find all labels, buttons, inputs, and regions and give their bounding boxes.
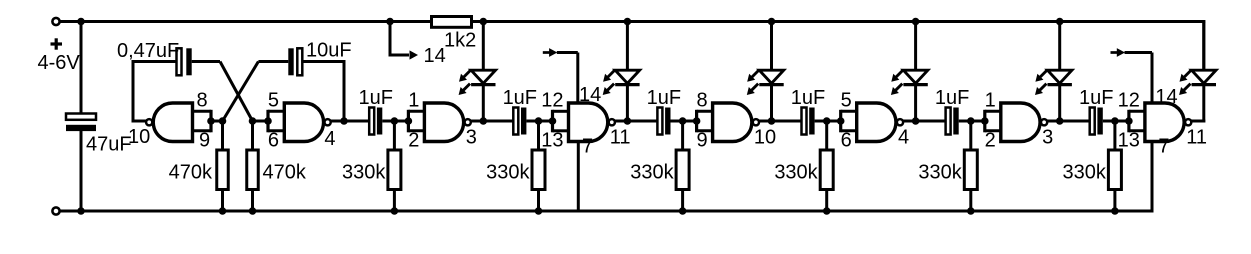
svg-text:14: 14 [424,45,446,67]
node input stage 5 [967,117,975,125]
NAND gate U2C (pins 8,9 in / 10 out) [713,103,752,142]
wire U2D inputs tie bracket [1127,110,1130,133]
capacitor C1 47uF [66,114,96,120]
wire C4 to input node [382,120,394,123]
svg-text:9: 9 [696,130,707,152]
wire LED D6 to output node [1202,85,1205,123]
svg-text:330k: 330k [774,162,818,184]
wire C5 to input node [526,120,538,123]
node A gate1 input / R1 / C3 [219,117,227,125]
svg-text:5: 5 [268,90,279,112]
node rail LED 5 [1056,18,1064,26]
svg-text:13: 13 [541,130,563,152]
svg-text:5: 5 [841,90,852,112]
svg-text:9: 9 [199,130,210,152]
node U2A output / LED [1056,117,1064,125]
resistor R3 1k2 [432,17,472,28]
node U2C input junction [693,117,701,125]
label + polarity [51,42,63,45]
wire U1D pin 14 to supply arrow [576,53,579,104]
svg-text:1uF: 1uF [935,87,969,109]
wire C6 to input node [671,120,683,123]
capacitor C2 0,47uF [177,48,182,75]
node U1B output [340,117,348,125]
node input stage 6 [1111,117,1119,125]
node U2A input junction [981,117,989,125]
node U1D output / LED [624,117,632,125]
node B gate2 input / R2 / C2 [249,117,257,125]
svg-text:4: 4 [898,127,909,149]
capacitor C7 1uF [802,108,807,135]
inverter bubble U1C pin 10 [146,119,152,125]
wire coupling into C8 [916,120,946,123]
wire rail to LED D5 [1058,22,1061,71]
svg-text:1uF: 1uF [503,87,537,109]
inverter bubble U2C pin 10 [753,119,759,125]
svg-text:8: 8 [196,90,207,112]
wire U2A output [1047,120,1060,123]
wire U1D pin 7 to ground [577,142,580,212]
svg-text:330k: 330k [342,162,386,184]
svg-text:2: 2 [408,130,419,152]
svg-text:330k: 330k [630,162,674,184]
node rail LED 2 [624,18,632,26]
node rail LED 3 [768,18,776,26]
svg-text:7: 7 [582,136,593,158]
resistor R2 470k [251,121,254,150]
svg-text:330k: 330k [918,162,962,184]
node U2B input junction [837,117,845,125]
wire input node to U2B bracket [827,120,841,123]
inverter bubble U2A pin 3 [1041,119,1047,125]
inverter bubble U1A pin 3 [465,119,471,125]
svg-text:14: 14 [1155,86,1177,108]
wire top rail right corner down to D6 [1202,20,1205,71]
LED D6 [1192,70,1216,83]
terminal + supply [52,18,59,25]
svg-text:47uF: 47uF [86,134,132,156]
wire LED D6 from rail [1202,22,1205,71]
LED D6 emission arrows [1184,70,1191,77]
wire U2B inputs tie bracket [839,110,842,133]
svg-text:6: 6 [841,130,852,152]
svg-text:13: 13 [1118,130,1140,152]
terminal - supply [52,207,59,214]
wire LED D1 to output node [482,85,485,123]
inverter bubble U1B pin 4 [325,119,331,125]
LED D3 emission arrows [752,70,759,77]
wire C3 to U1B output [303,60,344,63]
svg-text:330k: 330k [486,162,530,184]
node rail after R3 [480,18,488,26]
svg-text:1uF: 1uF [791,87,825,109]
node 330k to ground stage 2 [535,207,543,215]
wire ground rail corner up to gate8 pin 7 [1151,140,1154,213]
wire input node to U1A bracket [394,120,408,123]
inverter bubble U1D pin 11 [609,119,615,125]
node ground rail junction [77,207,85,215]
wire U2D pin 14 to supply arrow [1151,53,1154,104]
wire U2B output [903,120,916,123]
resistor 330k stage 2 [537,121,540,150]
wire U1A inputs tie bracket [407,110,410,133]
wire crossover C3 to node A [223,62,259,122]
node U1D input junction [549,117,557,125]
NAND gate U2A (pins 1,2 in / 3 out) [1001,103,1040,142]
wire U1A output [471,120,484,123]
inverter bubble U2B pin 4 [897,119,903,125]
LED D1 emission arrows [464,70,471,77]
svg-text:12: 12 [1118,90,1140,112]
node supply rail junction [77,18,85,26]
wire coupling into C6 [627,120,657,123]
pin 14 supply arrow [410,50,419,59]
node 330k to ground stage 6 [1111,207,1119,215]
wire U2A inputs tie bracket [983,110,986,133]
wire input node to U1D bracket [539,120,553,123]
wire rail to LED D1 [482,22,485,71]
wire rail to LED D3 [770,22,773,71]
wire coupling into C5 [483,120,513,123]
NAND gate U1D (pins 12,13 in / 11 out) [569,103,608,142]
resistor 330k stage 3 [681,121,684,150]
svg-text:1k2: 1k2 [444,30,476,52]
svg-text:12: 12 [541,90,563,112]
node 330k to ground stage 4 [823,207,831,215]
wire coupling into C4 [344,120,369,123]
wire bottom ground rail [60,210,1153,213]
pin 14 arrow U1D [543,51,551,54]
wire node B to U1B input [253,120,269,123]
svg-text:7: 7 [1158,136,1169,158]
LED D5 emission arrows [1040,70,1047,77]
svg-text:10uF: 10uF [306,40,352,62]
NAND gate U1B (pins 5,6 in / 4 out) [284,103,323,142]
node R2 to ground [249,207,257,215]
inverter bubble U2D pin 11 [1185,119,1191,125]
svg-text:0,47uF: 0,47uF [117,40,179,62]
wire C3 to crossover [258,60,288,63]
node input stage 3 [679,117,687,125]
wire LED D3 to output node [770,85,773,123]
node rail LED 4 [912,18,920,26]
NAND gate U1A (pins 1,2 in / 3 out) [424,103,463,142]
node 330k to ground stage 1 [391,207,399,215]
resistor R1 470k [221,121,224,150]
NAND gate U2D (pins 12,13 in / 11 out) [1145,103,1184,142]
capacitor C9 1uF [1090,108,1095,135]
wire top supply rail [60,20,1206,23]
wire crossover C2 to node B [220,62,253,122]
wire U1C output to C2 [133,120,146,123]
svg-text:10: 10 [754,127,776,149]
wire C7 to input node [815,120,827,123]
wire U1C input to node A [211,120,223,123]
resistor 330k stage 4 [825,121,828,150]
svg-text:4: 4 [324,128,335,150]
LED D5 [1048,70,1072,83]
svg-text:11: 11 [610,127,631,149]
node U1A output / LED [480,117,488,125]
svg-text:6: 6 [268,130,279,152]
wire input node to U2C bracket [683,120,697,123]
NAND gate U2B (pins 5,6 in / 4 out) [857,103,896,142]
capacitor C4 1uF [369,108,374,135]
node U2B output / LED [912,117,920,125]
svg-text:10: 10 [128,126,150,148]
wire U1B output [331,120,344,123]
resistor 330k stage 6 [1113,121,1116,150]
svg-text:1uF: 1uF [358,87,392,109]
node U1B input junction [264,117,272,125]
capacitor C8 1uF [946,108,951,135]
wire input node to U2A bracket [971,120,985,123]
node 330k to ground stage 3 [679,207,687,215]
wire input node to U2D bracket [1115,120,1129,123]
node U2D input junction [1125,117,1133,125]
wire rail to LED D4 [914,22,917,71]
svg-text:2: 2 [985,130,996,152]
pin 14 arrow U2D [1111,51,1119,54]
svg-text:470k: 470k [263,162,307,184]
wire LED D5 to output node [1058,85,1061,123]
svg-text:1uF: 1uF [1079,87,1113,109]
wire rail to LED D2 [626,22,629,71]
LED D3 [759,70,783,83]
wire U2D pin 7 to ground [1151,142,1154,151]
LED D4 [903,70,927,83]
svg-text:330k: 330k [1063,162,1107,184]
wire C1 to ground rail [80,131,83,212]
LED D4 emission arrows [896,70,903,77]
node input stage 2 [535,117,543,125]
node input stage 4 [823,117,831,125]
resistor 330k stage 1 [393,121,396,150]
wire supply to pin 14 arrow [389,22,392,56]
wire U2C output [759,120,772,123]
NAND gate U1C (pins 8,9 in / 10 out) [153,103,192,142]
capacitor C3 10uF [288,48,293,75]
wire supply to C1 [80,22,83,115]
wire U1B inputs tie bracket [266,110,269,133]
wire U1D inputs tie bracket [551,110,554,133]
wire coupling into C9 [1060,120,1090,123]
LED D2 [615,70,639,83]
node input stage 1 [391,117,399,125]
svg-text:1: 1 [408,90,419,112]
svg-text:14: 14 [579,84,601,106]
node rail to pin 14 feed [386,18,394,26]
wire U2D output [1191,120,1205,123]
node U1C input junction [207,117,215,125]
wire C8 to input node [959,120,971,123]
svg-text:3: 3 [466,127,477,149]
LED D1 [471,70,495,83]
wire C2 to crossover [192,60,220,63]
svg-text:470k: 470k [169,162,213,184]
wire U1D output [615,120,628,123]
svg-text:8: 8 [696,90,707,112]
wire coupling into C7 [772,120,802,123]
svg-text:11: 11 [1186,127,1207,149]
wire LED D4 to output node [914,85,917,123]
node U1A input junction [405,117,413,125]
node U2C output / LED [768,117,776,125]
svg-text:1: 1 [985,90,996,112]
capacitor C6 1uF [657,108,662,135]
wire U2C inputs tie bracket [695,110,698,133]
wire C9 to input node [1103,120,1115,123]
wire U1C inputs tie bracket [209,110,212,133]
svg-text:3: 3 [1042,127,1053,149]
svg-text:4-6V: 4-6V [38,52,81,74]
LED D2 emission arrows [608,70,615,77]
resistor 330k stage 5 [969,121,972,150]
node R1 to ground [219,207,227,215]
capacitor C5 1uF [513,108,518,135]
wire LED D2 to output node [626,85,629,123]
svg-text:1uF: 1uF [647,87,681,109]
node 330k to ground stage 5 [967,207,975,215]
